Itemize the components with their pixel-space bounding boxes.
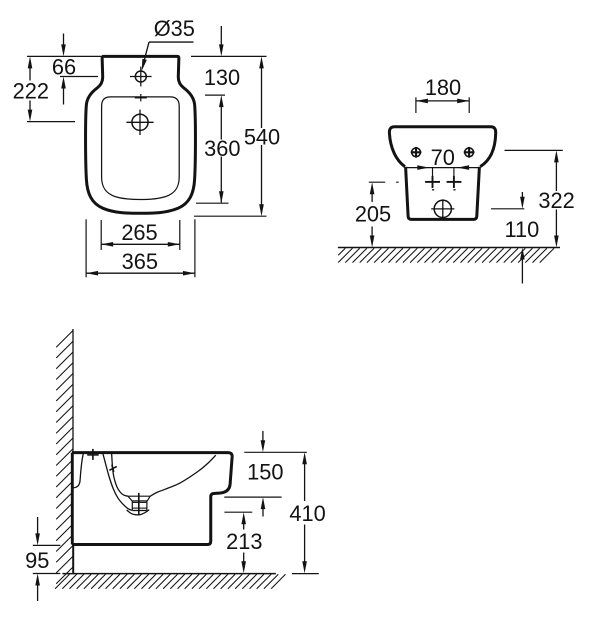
dimension 322: [538, 150, 574, 247]
tap hole cross right: [447, 176, 462, 188]
plan tap hole (O35) circle with center marks: [130, 67, 152, 87]
extension lines 365: [86, 219, 195, 277]
extension line 95 bottom: [33, 573, 61, 575]
extension line 150 bottom: [224, 496, 281, 498]
wall hatching: [56, 331, 73, 584]
wall line: [72, 329, 74, 574]
extension line 110 (drain level): [491, 208, 524, 210]
dimension 70: [417, 145, 469, 170]
side view trap outlet curve: [127, 510, 150, 515]
dimension 540: [244, 56, 280, 216]
dimension 66: [52, 34, 76, 105]
dimension 222: [13, 56, 49, 121]
dimension 410: [289, 452, 325, 573]
extension line 205 (tap hole level): [369, 181, 399, 183]
side view floor extension segment (410): [292, 573, 319, 575]
extension line top edge right: [191, 55, 267, 57]
side view floor hatching: [55, 574, 285, 588]
extension line rim top (150/410): [244, 451, 307, 453]
extension line top edge left: [27, 55, 101, 57]
bidet front view rim outline: [389, 127, 495, 167]
front view floor line: [338, 247, 560, 249]
fixing hole right: [464, 147, 475, 158]
svg-text:322: 322: [538, 188, 574, 213]
side view drain center line: [138, 493, 140, 515]
side view overflow channel line: [112, 453, 128, 496]
svg-text:130: 130: [204, 65, 240, 90]
front view rim/body junction line (70 dim line): [406, 167, 481, 169]
O35 label with leader arrow: [142, 16, 195, 71]
bidet side view outline: [72, 453, 232, 545]
side view tap hole mark: [87, 449, 99, 460]
plan overflow tick mark: [135, 94, 147, 101]
dimension 95: [25, 517, 49, 601]
svg-text:110: 110: [505, 217, 540, 242]
svg-text:205: 205: [355, 201, 391, 226]
extension line tap hole center: [60, 76, 98, 78]
extension line y203 (360 bottom): [196, 202, 229, 204]
side view floor line: [62, 573, 276, 575]
extension lines 265: [101, 220, 180, 250]
tap hole cross left: [425, 176, 440, 188]
svg-text:410: 410: [289, 501, 325, 526]
extension line 213 top: [224, 511, 252, 513]
front view body outline: [406, 167, 480, 220]
side view drain body: [132, 501, 147, 511]
bidet plan view outer outline: [86, 56, 196, 213]
extension line 322 (fixing hole level): [505, 149, 563, 151]
dimension 205: [355, 182, 391, 247]
dimension 110: [505, 192, 540, 284]
fixing hole left: [411, 147, 422, 158]
svg-text:213: 213: [226, 529, 262, 554]
side view drain flange: [128, 496, 150, 501]
dimension 265: [101, 220, 180, 247]
dimension 130: [204, 26, 240, 90]
bidet plan view inner bowl rim: [102, 97, 180, 200]
svg-text:180: 180: [425, 75, 461, 100]
side view backsplash/deck profile: [73, 454, 83, 488]
dimension 180: [416, 75, 469, 103]
dimension 213: [226, 512, 262, 573]
dimension 150: [247, 431, 283, 517]
svg-text:360: 360: [204, 136, 240, 161]
svg-text:66: 66: [52, 54, 76, 79]
svg-text:265: 265: [121, 220, 157, 245]
tap hole center line right: [453, 168, 455, 190]
plan drain hole circle with center marks: [126, 110, 153, 135]
dimension 365: [86, 249, 195, 275]
side view second tap hole mark (tilted): [109, 465, 116, 472]
side view bowl front inner line: [150, 455, 216, 496]
extension line y216 (540 bottom): [194, 215, 267, 217]
svg-text:Ø35: Ø35: [154, 16, 195, 41]
extension line 95 top: [33, 544, 61, 546]
svg-text:95: 95: [25, 548, 49, 573]
side view back edge at wall: [71, 453, 74, 545]
svg-text:365: 365: [122, 249, 158, 274]
tap hole center line left: [432, 168, 434, 190]
extension line drain center (222): [27, 121, 75, 123]
extension line y95 (130/360): [205, 94, 225, 96]
extension lines 180: [416, 97, 469, 113]
svg-text:222: 222: [13, 79, 49, 104]
svg-text:540: 540: [244, 124, 280, 149]
front drain circle with center marks: [431, 199, 454, 218]
side view bowl back wall line: [103, 454, 132, 510]
svg-text:70: 70: [431, 145, 455, 170]
svg-text:150: 150: [247, 459, 283, 484]
front view floor hatching: [338, 248, 554, 262]
dimension 360: [204, 95, 240, 203]
